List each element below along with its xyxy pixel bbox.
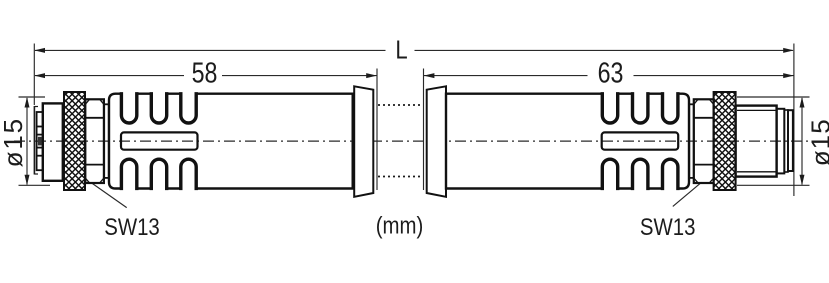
svg-text:SW13: SW13: [104, 213, 160, 240]
svg-text:ø15: ø15: [0, 119, 28, 168]
svg-text:L: L: [395, 36, 407, 65]
svg-text:58: 58: [192, 56, 218, 89]
svg-text:(mm): (mm): [376, 212, 424, 239]
svg-text:ø15: ø15: [805, 119, 829, 166]
svg-text:63: 63: [598, 56, 624, 89]
svg-text:SW13: SW13: [640, 213, 696, 240]
